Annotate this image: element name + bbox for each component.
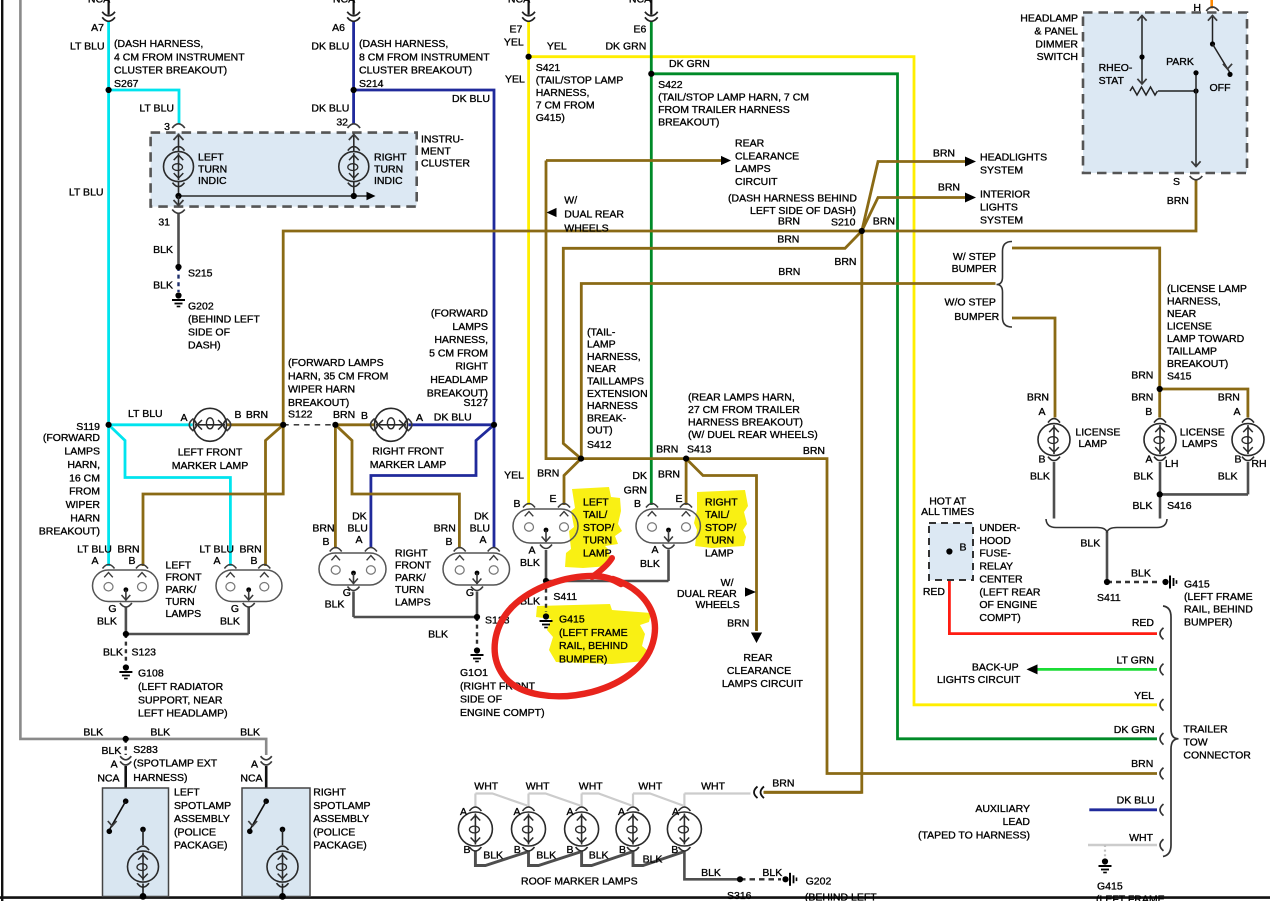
svg-text:STAT: STAT [1099,75,1125,87]
svg-text:BRN: BRN [333,409,355,421]
svg-text:S119: S119 [76,421,100,433]
svg-text:A6: A6 [332,22,345,34]
svg-text:BREAK-: BREAK- [587,412,627,424]
svg-text:S421: S421 [536,62,561,74]
svg-text:BLK: BLK [153,280,173,292]
svg-text:4 CM FROM INSTRUMENT: 4 CM FROM INSTRUMENT [114,51,245,63]
svg-text:BRN: BRN [778,266,800,278]
svg-text:S411: S411 [1097,592,1121,604]
svg-text:B: B [361,410,368,422]
svg-text:G: G [466,587,474,599]
svg-text:WHT: WHT [638,781,662,793]
svg-text:S316: S316 [727,890,752,901]
svg-text:TURN: TURN [374,163,403,175]
svg-text:RIGHT: RIGHT [455,361,488,373]
svg-text:PACKAGE): PACKAGE) [313,840,366,852]
svg-text:FROM: FROM [69,486,100,498]
svg-text:BLK: BLK [150,727,170,739]
svg-text:A: A [528,545,535,557]
svg-text:(TAIL-: (TAIL- [587,326,616,338]
svg-text:WIPER: WIPER [66,499,101,511]
svg-text:BLK: BLK [1080,538,1100,550]
svg-text:B: B [634,498,641,510]
svg-text:NCA: NCA [508,0,530,6]
svg-text:INSTRU-: INSTRU- [421,133,464,145]
svg-text:BRN: BRN [1167,195,1189,207]
svg-text:DK BLU: DK BLU [452,93,490,105]
svg-text:G415): G415) [536,112,565,124]
svg-text:(DASH HARNESS,: (DASH HARNESS, [359,38,448,50]
svg-text:CLEARANCE: CLEARANCE [727,665,791,677]
svg-text:OF ENGINE: OF ENGINE [979,599,1037,611]
svg-text:BRN: BRN [656,444,678,456]
svg-text:DK BLU: DK BLU [311,103,349,115]
svg-text:RED: RED [1132,617,1155,629]
svg-text:B: B [514,844,521,856]
svg-text:(LEFT FRAME: (LEFT FRAME [559,627,628,639]
svg-text:BLK: BLK [1131,568,1151,580]
svg-text:LT BLU: LT BLU [77,544,112,556]
svg-text:PARK/: PARK/ [395,572,426,584]
svg-text:TURN: TURN [198,163,227,175]
svg-text:(REAR LAMPS HARN,: (REAR LAMPS HARN, [688,391,795,403]
svg-text:CLEARANCE: CLEARANCE [735,150,799,162]
svg-text:LT GRN: LT GRN [1116,654,1154,666]
svg-text:(TAIL/STOP LAMP HARN, 7 CM: (TAIL/STOP LAMP HARN, 7 CM [658,92,809,104]
svg-text:LT BLU: LT BLU [139,103,174,115]
svg-text:BRN: BRN [727,618,749,630]
svg-text:CIRCUIT: CIRCUIT [735,176,778,188]
svg-text:G: G [231,603,239,615]
svg-text:LAMPS: LAMPS [64,446,100,458]
svg-text:NEAR: NEAR [587,363,617,375]
svg-text:16 CM: 16 CM [69,472,100,484]
svg-text:H: H [1193,2,1201,14]
svg-text:BLK: BLK [83,727,103,739]
svg-text:DK BLU: DK BLU [1117,795,1155,807]
svg-text:SIDE OF: SIDE OF [188,327,230,339]
svg-text:COMPT): COMPT) [979,612,1020,624]
svg-text:HEADLIGHTS: HEADLIGHTS [980,152,1047,164]
svg-text:BLK: BLK [103,647,123,659]
svg-text:BLK: BLK [220,615,240,627]
svg-text:B: B [566,844,573,856]
svg-text:BREAKOUT): BREAKOUT) [658,116,719,128]
svg-text:B: B [513,498,520,510]
svg-text:BRN: BRN [772,778,794,790]
svg-text:SIDE OF: SIDE OF [460,694,502,706]
svg-text:RAIL, BEHIND: RAIL, BEHIND [559,640,628,652]
svg-text:A: A [91,555,98,567]
svg-text:ASSEMBLY: ASSEMBLY [313,813,369,825]
svg-text:(TAIL/STOP LAMP: (TAIL/STOP LAMP [536,74,624,86]
svg-text:& PANEL: & PANEL [1034,25,1078,37]
svg-text:BRN: BRN [777,233,799,245]
svg-text:BRN: BRN [1131,392,1153,404]
svg-text:HARNESS,: HARNESS, [587,351,641,363]
svg-text:BLK: BLK [1133,500,1153,512]
svg-text:BACK-UP: BACK-UP [972,661,1019,673]
svg-text:BLK: BLK [428,629,448,641]
svg-text:A: A [416,412,423,424]
svg-text:BLK: BLK [1218,471,1238,483]
svg-text:B: B [671,844,678,856]
svg-text:YEL: YEL [504,36,524,48]
svg-text:(SPOTLAMP EXT: (SPOTLAMP EXT [133,758,217,770]
svg-text:(LEFT REAR: (LEFT REAR [979,586,1040,598]
svg-text:A: A [479,534,486,546]
svg-text:RIGHT: RIGHT [705,497,738,509]
svg-text:BRN: BRN [1131,758,1153,770]
svg-text:LT BLU: LT BLU [128,408,163,420]
svg-text:WHEELS: WHEELS [695,599,739,611]
svg-text:S214: S214 [359,78,384,90]
svg-text:S413: S413 [687,444,712,456]
svg-text:LEFT FRONT: LEFT FRONT [178,447,243,459]
svg-text:BRN: BRN [1131,369,1153,381]
svg-text:B: B [1145,406,1152,418]
svg-text:BLK: BLK [589,850,609,862]
svg-text:G415: G415 [1097,881,1123,893]
svg-text:BLU: BLU [470,523,490,535]
svg-text:LEAD: LEAD [1003,816,1031,828]
svg-text:B: B [234,409,241,421]
svg-text:BRN: BRN [434,523,456,535]
svg-text:OUT): OUT) [587,425,613,437]
svg-text:FUSE-: FUSE- [979,548,1011,560]
svg-text:B: B [463,844,470,856]
svg-text:E6: E6 [633,24,646,36]
svg-text:NCA: NCA [629,0,651,6]
svg-text:BLK: BLK [1133,471,1153,483]
svg-text:DUAL REAR: DUAL REAR [564,209,624,221]
svg-text:LEFT: LEFT [174,787,200,799]
svg-text:CLUSTER BREAKOUT): CLUSTER BREAKOUT) [114,65,227,77]
svg-text:BRN: BRN [933,148,955,160]
svg-text:LAMP: LAMP [587,339,616,351]
svg-text:BLK: BLK [701,867,721,879]
svg-text:BRN: BRN [1027,392,1049,404]
svg-text:RAIL, BEHIND: RAIL, BEHIND [1184,604,1253,616]
svg-text:A: A [672,806,679,818]
svg-text:G: G [108,603,116,615]
svg-text:BRN: BRN [240,544,262,556]
svg-text:A: A [1233,406,1240,418]
svg-text:RIGHT: RIGHT [374,152,407,164]
svg-text:27 CM FROM TRAILER: 27 CM FROM TRAILER [688,404,800,416]
svg-text:(FORWARD: (FORWARD [431,308,489,320]
svg-text:TOW: TOW [1183,737,1207,749]
svg-text:A: A [1038,406,1045,418]
svg-text:YEL: YEL [1134,690,1154,702]
svg-text:ASSEMBLY: ASSEMBLY [174,813,230,825]
svg-text:SWITCH: SWITCH [1037,51,1078,63]
svg-text:DK: DK [632,470,647,482]
svg-text:TURN: TURN [583,535,612,547]
svg-text:PARK: PARK [1166,56,1194,68]
svg-text:WHT: WHT [526,781,550,793]
svg-text:WHT: WHT [1129,832,1153,844]
svg-text:S415: S415 [1167,371,1192,383]
svg-text:GRN: GRN [624,485,647,497]
svg-text:FRONT: FRONT [166,572,203,584]
svg-text:HARNESS,: HARNESS, [1167,296,1221,308]
svg-text:S127: S127 [463,397,488,409]
svg-text:BLK: BLK [643,854,663,866]
svg-text:TURN: TURN [166,596,195,608]
svg-text:NCA: NCA [97,773,119,785]
svg-text:MENT: MENT [421,145,451,157]
svg-text:(BEHIND LEFT: (BEHIND LEFT [805,892,877,902]
svg-text:LEFT: LEFT [166,559,192,571]
svg-text:G415: G415 [559,614,585,626]
svg-text:BRN: BRN [537,468,559,480]
svg-text:S210: S210 [831,217,856,229]
svg-text:FROM TRAILER HARNESS: FROM TRAILER HARNESS [658,104,790,116]
svg-text:SPOTLAMP: SPOTLAMP [174,800,231,812]
svg-text:TAILLAMP: TAILLAMP [1167,346,1217,358]
svg-text:WHT: WHT [701,781,725,793]
svg-text:INDIC: INDIC [374,175,403,187]
svg-text:RHEO-: RHEO- [1099,62,1133,74]
svg-text:A: A [460,806,467,818]
svg-text:RIGHT FRONT: RIGHT FRONT [372,446,444,458]
svg-text:DK BLU: DK BLU [434,412,472,424]
svg-text:DK GRN: DK GRN [605,41,646,53]
svg-text:TURN: TURN [395,584,424,596]
svg-text:DK: DK [352,511,367,523]
svg-text:S123: S123 [132,647,157,659]
svg-text:BLK: BLK [520,557,540,569]
svg-text:LAMPS: LAMPS [166,608,202,620]
svg-text:G: G [343,587,351,599]
svg-text:BLU: BLU [347,523,367,535]
svg-text:LEFT: LEFT [583,497,609,509]
svg-text:NEAR: NEAR [1167,308,1197,320]
svg-text:ALL TIMES: ALL TIMES [921,506,974,518]
svg-text:B: B [1234,454,1241,466]
svg-text:B: B [128,555,135,567]
svg-text:LT BLU: LT BLU [70,41,105,53]
svg-text:BLK: BLK [325,599,345,611]
svg-text:BLK: BLK [101,745,121,757]
svg-text:BRN: BRN [1218,392,1240,404]
svg-text:WHEELS: WHEELS [564,223,608,235]
svg-text:B: B [322,536,329,548]
svg-text:MARKER LAMP: MARKER LAMP [172,460,248,472]
svg-text:(TAPED TO HARNESS): (TAPED TO HARNESS) [918,830,1030,842]
svg-text:(DASH HARNESS,: (DASH HARNESS, [114,38,203,50]
svg-text:LH: LH [1165,458,1178,470]
svg-text:LAMP: LAMP [1079,438,1108,450]
svg-text:S416: S416 [1167,500,1192,512]
svg-text:S422: S422 [658,79,683,91]
svg-text:SUPPORT, NEAR: SUPPORT, NEAR [138,694,223,706]
svg-text:BLK: BLK [483,850,503,862]
svg-text:B: B [445,536,452,548]
svg-text:CONNECTOR: CONNECTOR [1183,750,1251,762]
svg-text:A: A [566,806,573,818]
svg-text:(FORWARD LAMPS: (FORWARD LAMPS [288,357,384,369]
svg-text:G202: G202 [188,301,214,313]
svg-text:RH: RH [1251,458,1266,470]
svg-text:LAMP TOWARD: LAMP TOWARD [1167,333,1245,345]
svg-text:YEL: YEL [547,41,567,53]
svg-text:BRN: BRN [938,182,960,194]
svg-text:HEADLAMP: HEADLAMP [1020,13,1078,25]
svg-text:A7: A7 [91,22,104,34]
svg-text:FRONT: FRONT [395,560,432,572]
svg-text:A: A [355,534,362,546]
svg-text:ENGINE COMPT): ENGINE COMPT) [460,707,545,719]
svg-text:LAMPS: LAMPS [735,163,771,175]
svg-text:INTERIOR: INTERIOR [980,189,1031,201]
svg-text:BRN: BRN [873,216,895,228]
svg-text:HARN, 35 CM FROM: HARN, 35 CM FROM [288,370,388,382]
svg-text:TAIL/: TAIL/ [583,509,607,521]
svg-text:(POLICE: (POLICE [174,826,216,838]
svg-text:LICENSE: LICENSE [1180,426,1225,438]
svg-text:STOP/: STOP/ [705,522,736,534]
svg-text:LAMP: LAMP [583,547,612,559]
svg-text:S215: S215 [188,268,213,280]
svg-text:(LEFT FRAME: (LEFT FRAME [1184,591,1253,603]
svg-text:BRN: BRN [834,256,856,268]
svg-text:E: E [549,493,556,505]
svg-text:AUXILIARY: AUXILIARY [975,803,1030,815]
svg-text:W/ STEP: W/ STEP [953,251,996,263]
svg-text:UNDER-: UNDER- [979,522,1020,534]
svg-text:B: B [250,555,257,567]
svg-text:NCA: NCA [333,0,355,6]
svg-text:DK BLU: DK BLU [311,41,349,53]
svg-text:(POLICE: (POLICE [313,826,355,838]
svg-text:RED: RED [923,586,946,598]
svg-text:DASH): DASH) [188,340,221,352]
svg-text:BLK: BLK [640,558,660,570]
svg-text:BRN: BRN [312,523,334,535]
svg-text:LAMPS: LAMPS [452,321,488,333]
svg-text:WHT: WHT [474,781,498,793]
svg-text:RIGHT: RIGHT [313,787,346,799]
svg-text:BLK: BLK [240,727,260,739]
svg-text:BLK: BLK [1030,471,1050,483]
svg-text:PARK/: PARK/ [166,584,197,596]
svg-text:DK: DK [474,511,489,523]
svg-text:S122: S122 [288,409,313,421]
svg-text:(W/ DUEL REAR WHEELS): (W/ DUEL REAR WHEELS) [688,429,818,441]
svg-text:YEL: YEL [505,74,525,86]
svg-text:HARNESS): HARNESS) [133,772,187,784]
svg-text:W/: W/ [564,195,577,207]
svg-text:TRAILER: TRAILER [1183,724,1228,736]
svg-text:3: 3 [164,121,170,133]
svg-text:REAR: REAR [735,138,765,150]
svg-text:SPOTLAMP: SPOTLAMP [313,800,370,812]
svg-text:B: B [619,844,626,856]
svg-text:NCA: NCA [240,773,262,785]
svg-text:E: E [675,493,682,505]
svg-text:LICENSE: LICENSE [1167,321,1212,333]
svg-text:SYSTEM: SYSTEM [980,215,1023,227]
svg-text:G415: G415 [1184,579,1210,591]
svg-text:A: A [213,555,220,567]
svg-text:BLK: BLK [762,867,782,879]
svg-text:5 CM FROM: 5 CM FROM [429,347,488,359]
svg-text:BUMPER: BUMPER [954,311,999,323]
svg-text:MARKER LAMP: MARKER LAMP [370,459,446,471]
svg-text:CENTER: CENTER [979,573,1023,585]
svg-text:LT BLU: LT BLU [199,544,234,556]
svg-text:S283: S283 [133,744,158,756]
svg-text:CLUSTER: CLUSTER [421,157,470,169]
svg-text:LEFT: LEFT [198,152,224,164]
svg-text:HEADLAMP: HEADLAMP [430,374,488,386]
svg-text:TAILLAMPS: TAILLAMPS [587,376,644,388]
svg-text:BUMPER): BUMPER) [559,653,607,665]
svg-text:(LEFT RADIATOR: (LEFT RADIATOR [138,681,224,693]
svg-text:8 CM FROM INSTRUMENT: 8 CM FROM INSTRUMENT [359,51,490,63]
svg-text:7 CM FROM: 7 CM FROM [536,99,595,111]
svg-text:DK GRN: DK GRN [669,58,710,70]
svg-text:HARNESS,: HARNESS, [536,87,590,99]
svg-text:LEFT HEADLAMP): LEFT HEADLAMP) [138,708,228,720]
svg-text:LT BLU: LT BLU [69,187,104,199]
svg-text:BRN: BRN [246,409,268,421]
svg-text:LAMPS CIRCUIT: LAMPS CIRCUIT [722,678,804,690]
svg-text:S411: S411 [553,591,577,603]
svg-text:(BEHIND LEFT: (BEHIND LEFT [188,314,260,326]
svg-text:DK GRN: DK GRN [1114,724,1155,736]
svg-text:BRN: BRN [658,469,680,481]
svg-text:HARN: HARN [70,512,100,524]
svg-text:BRN: BRN [803,445,825,457]
svg-text:CLUSTER BREAKOUT): CLUSTER BREAKOUT) [359,65,472,77]
svg-text:E7: E7 [509,24,522,36]
svg-text:LAMPS: LAMPS [395,596,431,608]
svg-text:BLK: BLK [97,615,117,627]
svg-text:TURN: TURN [705,535,734,547]
svg-text:G1O1: G1O1 [460,667,488,679]
svg-text:BREAKOUT): BREAKOUT) [288,397,349,409]
svg-text:HOOD: HOOD [979,535,1011,547]
svg-text:(DASH HARNESS BEHIND: (DASH HARNESS BEHIND [728,193,857,205]
svg-text:TAIL/: TAIL/ [705,509,729,521]
svg-text:BLK: BLK [153,244,173,256]
svg-text:HARNESS: HARNESS [587,400,638,412]
svg-text:S267: S267 [114,78,139,90]
svg-text:NCA: NCA [88,0,110,6]
svg-text:EXTENSION: EXTENSION [587,388,648,400]
svg-text:LIGHTS: LIGHTS [980,202,1018,214]
svg-text:LAMPS: LAMPS [1182,438,1218,450]
svg-text:A: A [651,544,658,556]
svg-text:WIPER HARN: WIPER HARN [288,384,355,396]
svg-text:RIGHT: RIGHT [395,548,428,560]
svg-text:G108: G108 [138,668,164,680]
svg-text:S412: S412 [587,439,612,451]
svg-text:31: 31 [158,217,170,229]
svg-text:DIMMER: DIMMER [1035,38,1078,50]
svg-text:HARNESS BREAKOUT): HARNESS BREAKOUT) [688,417,803,429]
svg-text:HARN,: HARN, [67,459,100,471]
svg-text:RELAY: RELAY [979,561,1013,573]
svg-text:B: B [960,542,967,554]
svg-text:S: S [1173,176,1180,188]
svg-text:32: 32 [336,117,348,129]
svg-text:BRN: BRN [778,216,800,228]
svg-text:LEFT SIDE OF DASH): LEFT SIDE OF DASH) [750,205,856,217]
